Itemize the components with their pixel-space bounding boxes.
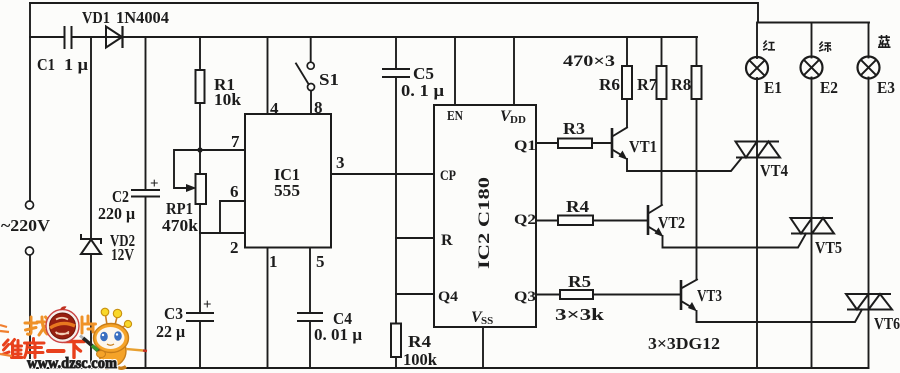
- svg-text:C3: C3: [164, 304, 183, 323]
- svg-text:VT2: VT2: [658, 213, 685, 232]
- svg-text:0. 01 μ: 0. 01 μ: [314, 325, 362, 344]
- svg-text:12V: 12V: [111, 245, 135, 264]
- svg-text:Q4: Q4: [438, 289, 459, 305]
- svg-text:470k: 470k: [162, 216, 199, 235]
- svg-text:R7: R7: [637, 75, 657, 94]
- svg-text:22 μ: 22 μ: [156, 322, 185, 341]
- svg-text:E3: E3: [877, 78, 895, 97]
- svg-text:VT5: VT5: [815, 238, 842, 257]
- svg-text:5: 5: [316, 252, 325, 271]
- svg-text:VT3: VT3: [697, 286, 722, 305]
- svg-text:R8: R8: [671, 75, 691, 94]
- svg-text:R: R: [441, 232, 453, 249]
- svg-text:VT6: VT6: [874, 314, 900, 333]
- svg-text:6: 6: [230, 182, 239, 201]
- svg-text:VD1: VD1: [82, 8, 110, 27]
- svg-text:1 μ: 1 μ: [64, 55, 88, 74]
- svg-text:1N4004: 1N4004: [116, 8, 169, 27]
- svg-text:C1: C1: [37, 55, 55, 74]
- svg-text:8: 8: [314, 98, 323, 117]
- svg-text:DD: DD: [510, 114, 526, 126]
- svg-text:R5: R5: [568, 272, 591, 291]
- svg-text:2: 2: [230, 238, 239, 257]
- svg-text:3×3DG12: 3×3DG12: [648, 334, 720, 353]
- svg-text:220 μ: 220 μ: [98, 204, 135, 223]
- svg-text:S1: S1: [319, 70, 339, 89]
- svg-text:VT4: VT4: [760, 161, 788, 180]
- svg-text:CP: CP: [440, 168, 456, 184]
- svg-text:VT1: VT1: [629, 137, 657, 156]
- svg-text:0. 1 μ: 0. 1 μ: [401, 81, 444, 100]
- svg-text:1: 1: [269, 252, 278, 271]
- svg-text:3×3k: 3×3k: [555, 305, 605, 324]
- svg-text:EN: EN: [447, 109, 463, 124]
- svg-text:R4: R4: [408, 332, 432, 351]
- svg-text:4: 4: [270, 99, 279, 118]
- svg-text:R4: R4: [566, 197, 590, 216]
- svg-text:3: 3: [336, 153, 345, 172]
- svg-text:E1: E1: [764, 78, 782, 97]
- svg-text:Q3: Q3: [514, 289, 536, 305]
- svg-text:Q1: Q1: [514, 138, 536, 154]
- svg-text:470×3: 470×3: [563, 53, 615, 70]
- svg-text:10k: 10k: [214, 90, 242, 109]
- svg-text:+: +: [150, 176, 159, 192]
- svg-text:100k: 100k: [403, 350, 438, 369]
- svg-text:www.dzsc.com: www.dzsc.com: [27, 355, 117, 372]
- svg-text:555: 555: [274, 181, 300, 200]
- svg-text:E2: E2: [820, 78, 838, 97]
- svg-text:R6: R6: [599, 75, 620, 94]
- svg-text:R3: R3: [563, 119, 585, 138]
- svg-text:+: +: [203, 297, 212, 313]
- svg-text:IC2 C180: IC2 C180: [476, 177, 493, 269]
- svg-text:SS: SS: [481, 315, 493, 327]
- svg-text:Q2: Q2: [514, 212, 536, 228]
- svg-text:7: 7: [231, 132, 240, 151]
- svg-text:~220V: ~220V: [1, 216, 51, 235]
